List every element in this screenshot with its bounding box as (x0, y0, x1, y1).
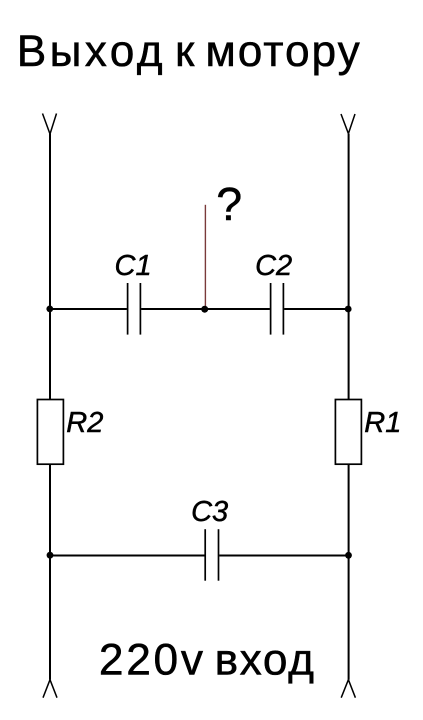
svg-text:Выход: Выход (17, 27, 166, 76)
wire top horizontal: left node to C1 (49, 308, 127, 310)
svg-text:220v: 220v (99, 635, 206, 684)
wire right vertical upper (348, 134, 350, 400)
svg-text:C1: C1 (115, 250, 152, 282)
svg-text:C2: C2 (255, 250, 292, 282)
capacitor C2 (271, 283, 284, 335)
wire bottom horizontal: C3 to right node (219, 555, 349, 557)
capacitor C3 (205, 529, 218, 581)
svg-text:R1: R1 (364, 407, 401, 439)
node junction top-middle (201, 306, 208, 313)
wire top horizontal: C1 to C2 (141, 308, 270, 310)
resistor R1 (335, 400, 361, 465)
node junction top-right (345, 306, 352, 313)
terminal bottom-right (fork) (341, 680, 355, 698)
resistor R2 (37, 400, 63, 465)
wire top horizontal: C2 to right node (284, 308, 350, 310)
svg-text:R2: R2 (66, 407, 103, 439)
svg-text:?: ? (216, 178, 242, 230)
node junction bottom-right (345, 552, 352, 559)
terminal top-right (fork) (341, 114, 355, 134)
capacitor C1 (128, 283, 141, 335)
svg-text:C3: C3 (191, 496, 228, 528)
node junction top-left (46, 306, 53, 313)
svg-text:к: к (175, 27, 195, 76)
red probe wire (204, 205, 206, 308)
svg-text:вход: вход (215, 635, 316, 684)
wire left vertical lower (49, 464, 51, 680)
svg-text:мотору: мотору (205, 27, 361, 76)
node junction bottom-left (47, 552, 54, 559)
terminal bottom-left (fork) (43, 680, 57, 698)
wire left vertical upper (49, 134, 51, 400)
terminal top-left (fork) (43, 114, 57, 135)
wire bottom horizontal: left node to C3 (49, 555, 205, 557)
wire right vertical lower (348, 464, 350, 680)
